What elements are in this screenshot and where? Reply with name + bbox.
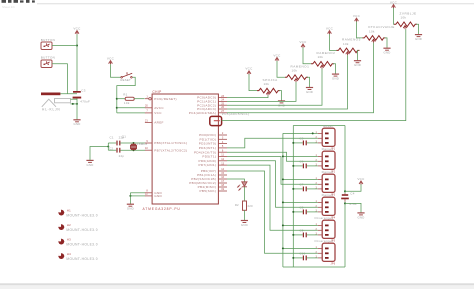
svg-text:GND: GND xyxy=(154,194,162,198)
wire C1 to XTAL1 pin xyxy=(120,142,145,144)
IC U1 ATMEGA328P-PU body xyxy=(152,94,218,204)
crystal Q1 16MHz xyxy=(131,143,137,150)
JP2 pin 1 xyxy=(325,156,329,158)
wire rail to C8 left xyxy=(293,211,303,213)
svg-text:C5: C5 xyxy=(300,137,304,141)
node crystal bottom junction xyxy=(133,149,135,151)
U1 pin 22 GND xyxy=(145,195,152,197)
svg-text:C7: C7 xyxy=(300,183,304,187)
wire rail to JP6 pin1 xyxy=(283,247,318,249)
svg-text:10k: 10k xyxy=(292,69,298,73)
svg-text:47uF: 47uF xyxy=(349,202,357,206)
wire S2 to VCC node xyxy=(52,45,77,47)
node VCC/C4 xyxy=(344,190,346,192)
U1 pin 27 PC4(ADC4/SDA) xyxy=(218,112,227,114)
wire C7 to JP3 pin3 xyxy=(307,188,318,190)
wire rail to GND xyxy=(345,203,361,212)
wire LED1 to R2 xyxy=(243,187,245,201)
svg-text:C1: C1 xyxy=(110,135,114,139)
capacitor C9 (decoupling JP5) xyxy=(303,233,306,238)
power symbol VCC (R7 OTKACIVANJE) xyxy=(353,14,361,22)
wire VCC ring top xyxy=(293,125,345,127)
U1 pin 12 PD6(AIN0) xyxy=(218,160,227,162)
JP3 pin 3 xyxy=(325,188,329,190)
mount hole H4 xyxy=(58,253,64,259)
toolbar icon remnants (top-left window chrome) xyxy=(2,0,35,3)
svg-text:Nosac: Nosac xyxy=(323,124,334,128)
ground symbol GND (IC) xyxy=(127,204,134,210)
svg-text:GND: GND xyxy=(358,215,365,219)
wire VCC to R8 left end xyxy=(393,8,396,24)
power symbol VCC (R4 RAMENO1) xyxy=(273,53,281,61)
connector JP1 Nosac (3-pin servo header) xyxy=(322,128,335,146)
wire rail to C5 left xyxy=(293,142,303,144)
wire to C2 xyxy=(108,149,116,151)
svg-text:Rame3: Rame3 xyxy=(322,193,334,197)
power symbol VCC (R8 ZVRBLJE) xyxy=(390,0,398,8)
fuse F1 (filled bar) xyxy=(41,93,60,96)
net signal PB0 to JP6 pin2 xyxy=(227,171,318,253)
svg-text:MOUNT-HOLE3.0: MOUNT-HOLE3.0 xyxy=(66,228,98,232)
svg-text:H4: H4 xyxy=(67,252,71,256)
node rail/C9 xyxy=(292,234,294,236)
svg-text:GND: GND xyxy=(127,207,134,211)
svg-text:VCC: VCC xyxy=(353,14,361,18)
trimmer potentiometer R5 RAMENO2 10k xyxy=(311,62,334,67)
svg-text:PB5(SCK): PB5(SCK) xyxy=(200,189,217,193)
ground symbol GND (R3) xyxy=(278,101,285,107)
wire C6 to JP2 pin3 xyxy=(307,165,318,167)
svg-text:C10: C10 xyxy=(300,252,306,256)
svg-text:Otvaranje1: Otvaranje1 xyxy=(314,216,333,220)
svg-text:GND: GND xyxy=(354,63,361,67)
wire R1 to /RESET pin xyxy=(134,98,144,100)
JP6 pin 3 xyxy=(325,257,329,259)
U1 pin 24 PC1(ADC1) xyxy=(218,100,227,102)
wire rail to JP2 pin1 xyxy=(283,155,318,157)
wire rail to C10 left xyxy=(293,257,303,259)
node rail/C6 xyxy=(292,165,294,167)
U1 pin 23 PC0(ADC0) xyxy=(218,97,227,99)
U1 pin 11 PD5(T1) xyxy=(218,156,227,158)
capacitor C10 (decoupling JP6) xyxy=(303,256,306,261)
wire R7 wiper to PC4 row xyxy=(227,43,374,113)
wire S3 down to fuse bar xyxy=(52,64,67,94)
svg-text:RESET: RESET xyxy=(120,78,131,82)
svg-text:MOUNT-HOLE3.0: MOUNT-HOLE3.0 xyxy=(66,257,98,261)
trimmer potentiometer R4 RAMENO1 10k xyxy=(285,75,308,80)
svg-text:PB7(XTAL2/TOSC2): PB7(XTAL2/TOSC2) xyxy=(154,148,187,152)
JP6 pin 2 xyxy=(325,252,329,254)
wire supply rail (outer left) xyxy=(282,133,284,267)
JP4 pin 2 xyxy=(325,206,329,208)
wire C9 to JP5 pin3 xyxy=(307,234,318,236)
node rail/JP3 pin1 xyxy=(282,178,284,180)
mount hole H2 xyxy=(58,224,64,230)
svg-text:AVCC: AVCC xyxy=(154,106,164,110)
U1 pin 4 PD2(INT0) xyxy=(218,143,227,145)
U1 pin 7 VCC xyxy=(145,112,152,114)
wire R8 wiper to PC5 row xyxy=(222,29,406,121)
svg-text:MOUNT-HOLE3.0: MOUNT-HOLE3.0 xyxy=(66,214,98,218)
svg-text:VCC: VCC xyxy=(299,40,307,44)
wire rail to JP5 pin1 xyxy=(283,224,318,226)
resistor R2 (box style) xyxy=(243,201,247,210)
svg-text:PC4(ADC4/SDA): PC4(ADC4/SDA) xyxy=(189,111,216,115)
wire cap common vertical xyxy=(107,143,109,150)
resistor R1 (box style) xyxy=(125,97,134,100)
mount hole H3 xyxy=(58,238,64,244)
wire rail to JP3 pin1 xyxy=(283,178,318,180)
toolbar divider line xyxy=(37,3,474,5)
JP6 pin 1 xyxy=(325,248,329,250)
wire GND rail bottom xyxy=(283,266,345,268)
U1 pin 15 PB1(OC1A) xyxy=(218,174,227,176)
trimmer potentiometer R6 RAMENO3 10k xyxy=(337,48,360,53)
net signal PD5 to JP3 pin2 xyxy=(227,157,318,185)
ground symbol GND (servo rail) xyxy=(357,213,364,219)
capacitor C8 (decoupling JP4) xyxy=(303,210,306,215)
node GND/C4 xyxy=(344,202,346,204)
power symbol VCC (R6 RAMENO3) xyxy=(326,27,334,35)
wire C10 to JP6 pin3 xyxy=(307,257,318,259)
svg-text:Rame1: Rame1 xyxy=(322,147,334,151)
svg-text:R2: R2 xyxy=(235,203,239,207)
U1 pin 20 AVCC xyxy=(145,107,152,109)
svg-text:10k: 10k xyxy=(124,101,130,105)
svg-text:GND: GND xyxy=(415,37,422,41)
svg-text:10k: 10k xyxy=(343,42,349,46)
power symbol VCC (power-entry net) xyxy=(73,27,81,35)
wire C3 to junction xyxy=(76,99,78,104)
svg-text:10k: 10k xyxy=(369,29,375,33)
svg-text:VCC: VCC xyxy=(357,177,365,181)
wire GND rail right lower xyxy=(344,202,346,267)
node jack junction a xyxy=(72,103,74,105)
wire VCC rail right upper xyxy=(344,126,346,194)
svg-text:Sheet 1/1: Sheet 1/1 xyxy=(2,5,15,9)
mount hole H1 xyxy=(58,210,64,216)
svg-text:GND: GND xyxy=(74,122,81,126)
wire VCC to R6 left end xyxy=(330,34,337,50)
wire R7 right end to GND xyxy=(385,38,388,48)
svg-text:PC6(/RESET): PC6(/RESET) xyxy=(154,97,177,101)
wire S1 to VCC/AVCC feed vertical xyxy=(117,77,135,113)
ground symbol GND (R4) xyxy=(306,88,313,94)
wire PB2 to LED1 xyxy=(227,179,244,182)
wire GND pin 8 xyxy=(130,192,145,194)
JP1 pin 1 xyxy=(325,133,329,135)
svg-text:C3: C3 xyxy=(81,89,85,93)
wire R6 right end to GND xyxy=(358,50,359,60)
JP1 pin 2 xyxy=(325,137,329,139)
net signal PD4 to JP2 pin2 xyxy=(227,152,318,161)
svg-text:BUTTON: BUTTON xyxy=(41,55,55,59)
power symbol VCC (servo rail) xyxy=(357,177,365,185)
node rail/C8 xyxy=(292,211,294,213)
wire VCC rail (inner left) xyxy=(292,126,294,268)
node rail/C7 xyxy=(292,188,294,190)
svg-text:GND: GND xyxy=(87,163,94,167)
ground symbol GND (LED) xyxy=(241,221,248,227)
svg-text:470uF: 470uF xyxy=(80,100,90,104)
svg-text:Rame2: Rame2 xyxy=(322,170,334,174)
wire R4 right end to GND xyxy=(307,77,310,87)
U1 pin 17 PB3(MOSI/OC2) xyxy=(218,182,227,184)
JP5 pin 3 xyxy=(325,234,329,236)
ground symbol GND (crystal) xyxy=(86,160,93,166)
U1 pin 13 PD7(AIN1) xyxy=(218,164,227,166)
wire jack pin2 to VCC node xyxy=(71,98,78,100)
U1 pin 10 PB7(XTAL2/TOSC2) xyxy=(145,149,152,151)
node jack junction b xyxy=(76,103,78,105)
node rail/C10 xyxy=(292,257,294,259)
connector JP5 Otvaranje1 (3-pin servo header) xyxy=(322,220,335,238)
U1 pin 3 PD1(TXD) xyxy=(218,138,227,140)
trimmer potentiometer R8 ZVRBLJE 10k xyxy=(394,22,417,27)
svg-text:CHIP: CHIP xyxy=(152,90,161,94)
svg-text:VCC: VCC xyxy=(73,27,81,31)
node JP1 pin1 junction xyxy=(312,132,314,134)
trimmer potentiometer R7 OTKACIVANJE 10k xyxy=(363,36,386,41)
capacitor C2 22p xyxy=(117,148,120,153)
wire jack pin1 to GND node xyxy=(71,103,78,105)
U1 pin 19 PB5(SCK) xyxy=(218,190,227,192)
wire GND pin 22 xyxy=(130,195,145,197)
JP4 pin 3 xyxy=(325,211,329,213)
capacitor C7 (decoupling JP3) xyxy=(303,187,306,192)
svg-text:10k: 10k xyxy=(264,82,270,86)
wire VCC2 down to reset switch S1 xyxy=(111,64,121,77)
wire rail to C7 left xyxy=(293,188,303,190)
wire down to GND symbol xyxy=(129,193,131,204)
wire rail to C6 left xyxy=(293,165,303,167)
svg-text:Q1: Q1 xyxy=(122,134,126,138)
svg-text:VCC: VCC xyxy=(326,27,334,31)
wire rail to JP4 pin1 xyxy=(283,201,318,203)
power symbol VCC (R3 SPOJKA) xyxy=(245,67,253,75)
svg-text:VCC: VCC xyxy=(107,57,115,61)
wire C2 to XTAL2 pin xyxy=(120,149,145,151)
node cap common junction xyxy=(107,146,109,148)
svg-text:Otvaranje2: Otvaranje2 xyxy=(314,239,333,243)
wire C8 to JP4 pin3 xyxy=(307,211,318,213)
svg-text:C6: C6 xyxy=(300,160,304,164)
node junction button S2 / VCC xyxy=(76,45,78,47)
U1 pin 6 PD4(XCK/T0) xyxy=(218,151,227,153)
svg-text:VCC: VCC xyxy=(273,53,281,57)
connector JP3 Rame2 (3-pin servo header) xyxy=(322,174,335,192)
svg-text:22p: 22p xyxy=(119,154,125,158)
pushbutton S3 xyxy=(41,60,52,68)
capacitor C3 polarized 470uF xyxy=(73,91,82,99)
svg-text:C8: C8 xyxy=(300,206,304,210)
svg-text:PD7(AIN1): PD7(AIN1) xyxy=(199,163,217,167)
svg-text:GND: GND xyxy=(306,90,313,94)
wire VCC to rail xyxy=(345,184,361,191)
svg-text:VCC: VCC xyxy=(154,111,162,115)
node rail/JP2 pin1 xyxy=(282,155,284,157)
wire R8 right end to GND xyxy=(416,24,419,34)
JP1 pin 3 xyxy=(325,142,329,144)
node GND pins junction xyxy=(129,195,131,197)
svg-text:JP6: JP6 xyxy=(331,262,336,265)
svg-text:PB6(XTAL1/TOSC1): PB6(XTAL1/TOSC1) xyxy=(154,141,187,145)
DC power jack J1 (gray outline) xyxy=(42,99,71,107)
wire R6 wiper to PC3 row xyxy=(227,55,348,109)
node crystal top junction xyxy=(133,142,135,144)
svg-text:HL-KLJN: HL-KLJN xyxy=(42,108,61,112)
capacitor C1 22p xyxy=(117,141,120,146)
node AVCC junction xyxy=(116,107,118,109)
capacitor C4 polarized 47uF xyxy=(341,194,349,199)
pushbutton S2 xyxy=(41,42,52,50)
wire R3 right end to GND xyxy=(279,91,282,101)
U1 pin 18 PB4(MISO) xyxy=(218,186,227,188)
wire R5 wiper to PC2 row xyxy=(227,69,322,106)
wire to AVCC pin xyxy=(117,107,145,109)
wire junction down to GND xyxy=(76,104,78,120)
svg-text:GND: GND xyxy=(384,51,391,55)
reset switch S1 xyxy=(121,72,132,78)
svg-text:C4: C4 xyxy=(350,192,354,196)
bottom status bar xyxy=(0,283,474,285)
capacitor C5 (decoupling JP1) xyxy=(303,141,306,146)
svg-text:VCC: VCC xyxy=(245,67,253,71)
svg-text:C2: C2 xyxy=(109,147,113,151)
net signal PD3 to JP1 pin2 xyxy=(227,138,318,148)
ground symbol GND (power entry) xyxy=(73,120,80,126)
wire rail to JP1 pin1 xyxy=(283,132,318,134)
svg-text:H1: H1 xyxy=(67,208,71,212)
net signal PD6 to JP4 pin2 xyxy=(227,161,318,208)
node rail/JP5 pin1 xyxy=(282,224,284,226)
wire to VCC pin xyxy=(117,112,145,114)
ground symbol GND (R6) xyxy=(354,61,361,67)
power symbol VCC (R5 RAMENO2) xyxy=(299,40,307,48)
JP5 pin 2 xyxy=(325,229,329,231)
ground symbol GND (R5) xyxy=(332,74,339,80)
ground symbol GND (R8) xyxy=(415,35,422,41)
wire R5 right end to GND xyxy=(333,64,336,74)
wire VCC to R5 left end xyxy=(303,48,311,64)
svg-text:H2: H2 xyxy=(67,223,71,227)
wire VCC to R4 left end xyxy=(277,61,285,77)
ground symbol GND (R7) xyxy=(383,48,390,54)
wire VCC to R7 left end xyxy=(357,22,363,38)
node rail/C5 xyxy=(292,142,294,144)
U1 pin 9 PB6(XTAL1/TOSC1) xyxy=(145,142,152,144)
svg-text:10k: 10k xyxy=(318,55,324,59)
svg-text:220: 220 xyxy=(248,204,254,208)
U1 pin 5 PD3(INT1) xyxy=(218,147,227,149)
trimmer potentiometer R3 SPOJKA 10k xyxy=(257,88,280,93)
svg-text:VCC: VCC xyxy=(390,0,398,4)
svg-text:AREF: AREF xyxy=(154,121,163,125)
wire to C1 xyxy=(108,142,116,144)
JP3 pin 1 xyxy=(325,179,329,181)
wire rail to C9 left xyxy=(293,234,303,236)
LED LED1 xyxy=(238,182,247,190)
U1 pin 16 PB2(SS/OC1B) xyxy=(218,178,227,180)
JP2 pin 2 xyxy=(325,160,329,162)
capacitor C6 (decoupling JP2) xyxy=(303,164,306,169)
svg-text:10k: 10k xyxy=(401,16,407,20)
svg-text:C9: C9 xyxy=(300,229,304,233)
connector JP2 Rame1 (3-pin servo header) xyxy=(322,151,335,169)
node rail/JP4 pin1 xyxy=(282,201,284,203)
svg-text:GND: GND xyxy=(332,77,339,81)
net signal PD7 to JP5 pin2 xyxy=(227,165,318,230)
connector JP6 Otvaranje2 (3-pin servo header) xyxy=(322,243,335,261)
wire R4 wiper to PC1 row xyxy=(227,82,296,101)
U1 pin 8 GND xyxy=(145,192,152,194)
node reset net junction xyxy=(116,98,118,100)
wire R2 to GND xyxy=(243,210,245,220)
JP4 pin 1 xyxy=(325,202,329,204)
wire C5 to JP1 pin3 xyxy=(307,142,318,144)
U1 pin 25 PC2(ADC2) xyxy=(218,104,227,106)
connector JP4 Rame3 (3-pin servo header) xyxy=(322,197,335,215)
svg-text:GND: GND xyxy=(241,223,248,227)
svg-text:H3: H3 xyxy=(67,237,71,241)
wire VCC to R3 left end xyxy=(249,74,257,90)
svg-text:R1: R1 xyxy=(123,93,127,97)
U1 pin 26 PC3(ADC3) xyxy=(218,108,227,110)
JP5 pin 1 xyxy=(325,225,329,227)
node rail/JP6 pin1 xyxy=(282,247,284,249)
U1 pin 14 PB0(ICP) xyxy=(218,170,227,172)
wire GND to cap common xyxy=(90,147,108,161)
wire VCC vertical to C3 xyxy=(76,34,78,91)
U1 pin 2 PD0(RXD) xyxy=(218,134,227,136)
JP3 pin 2 xyxy=(325,183,329,185)
wire R3 wiper to PC0 row xyxy=(227,95,268,97)
svg-text:ATMEGA328P-PU: ATMEGA328P-PU xyxy=(143,207,181,211)
power symbol VCC (reset feed) xyxy=(107,57,115,65)
JP2 pin 3 xyxy=(325,165,329,167)
wire fuse to VCC vertical xyxy=(60,93,77,95)
svg-text:MOUNT-HOLE3.0: MOUNT-HOLE3.0 xyxy=(66,243,98,247)
U1 pin 1 PC6(/RESET) xyxy=(145,98,149,100)
wire junction to R1 xyxy=(117,98,125,100)
U1 pin 21 AREF xyxy=(145,122,152,124)
